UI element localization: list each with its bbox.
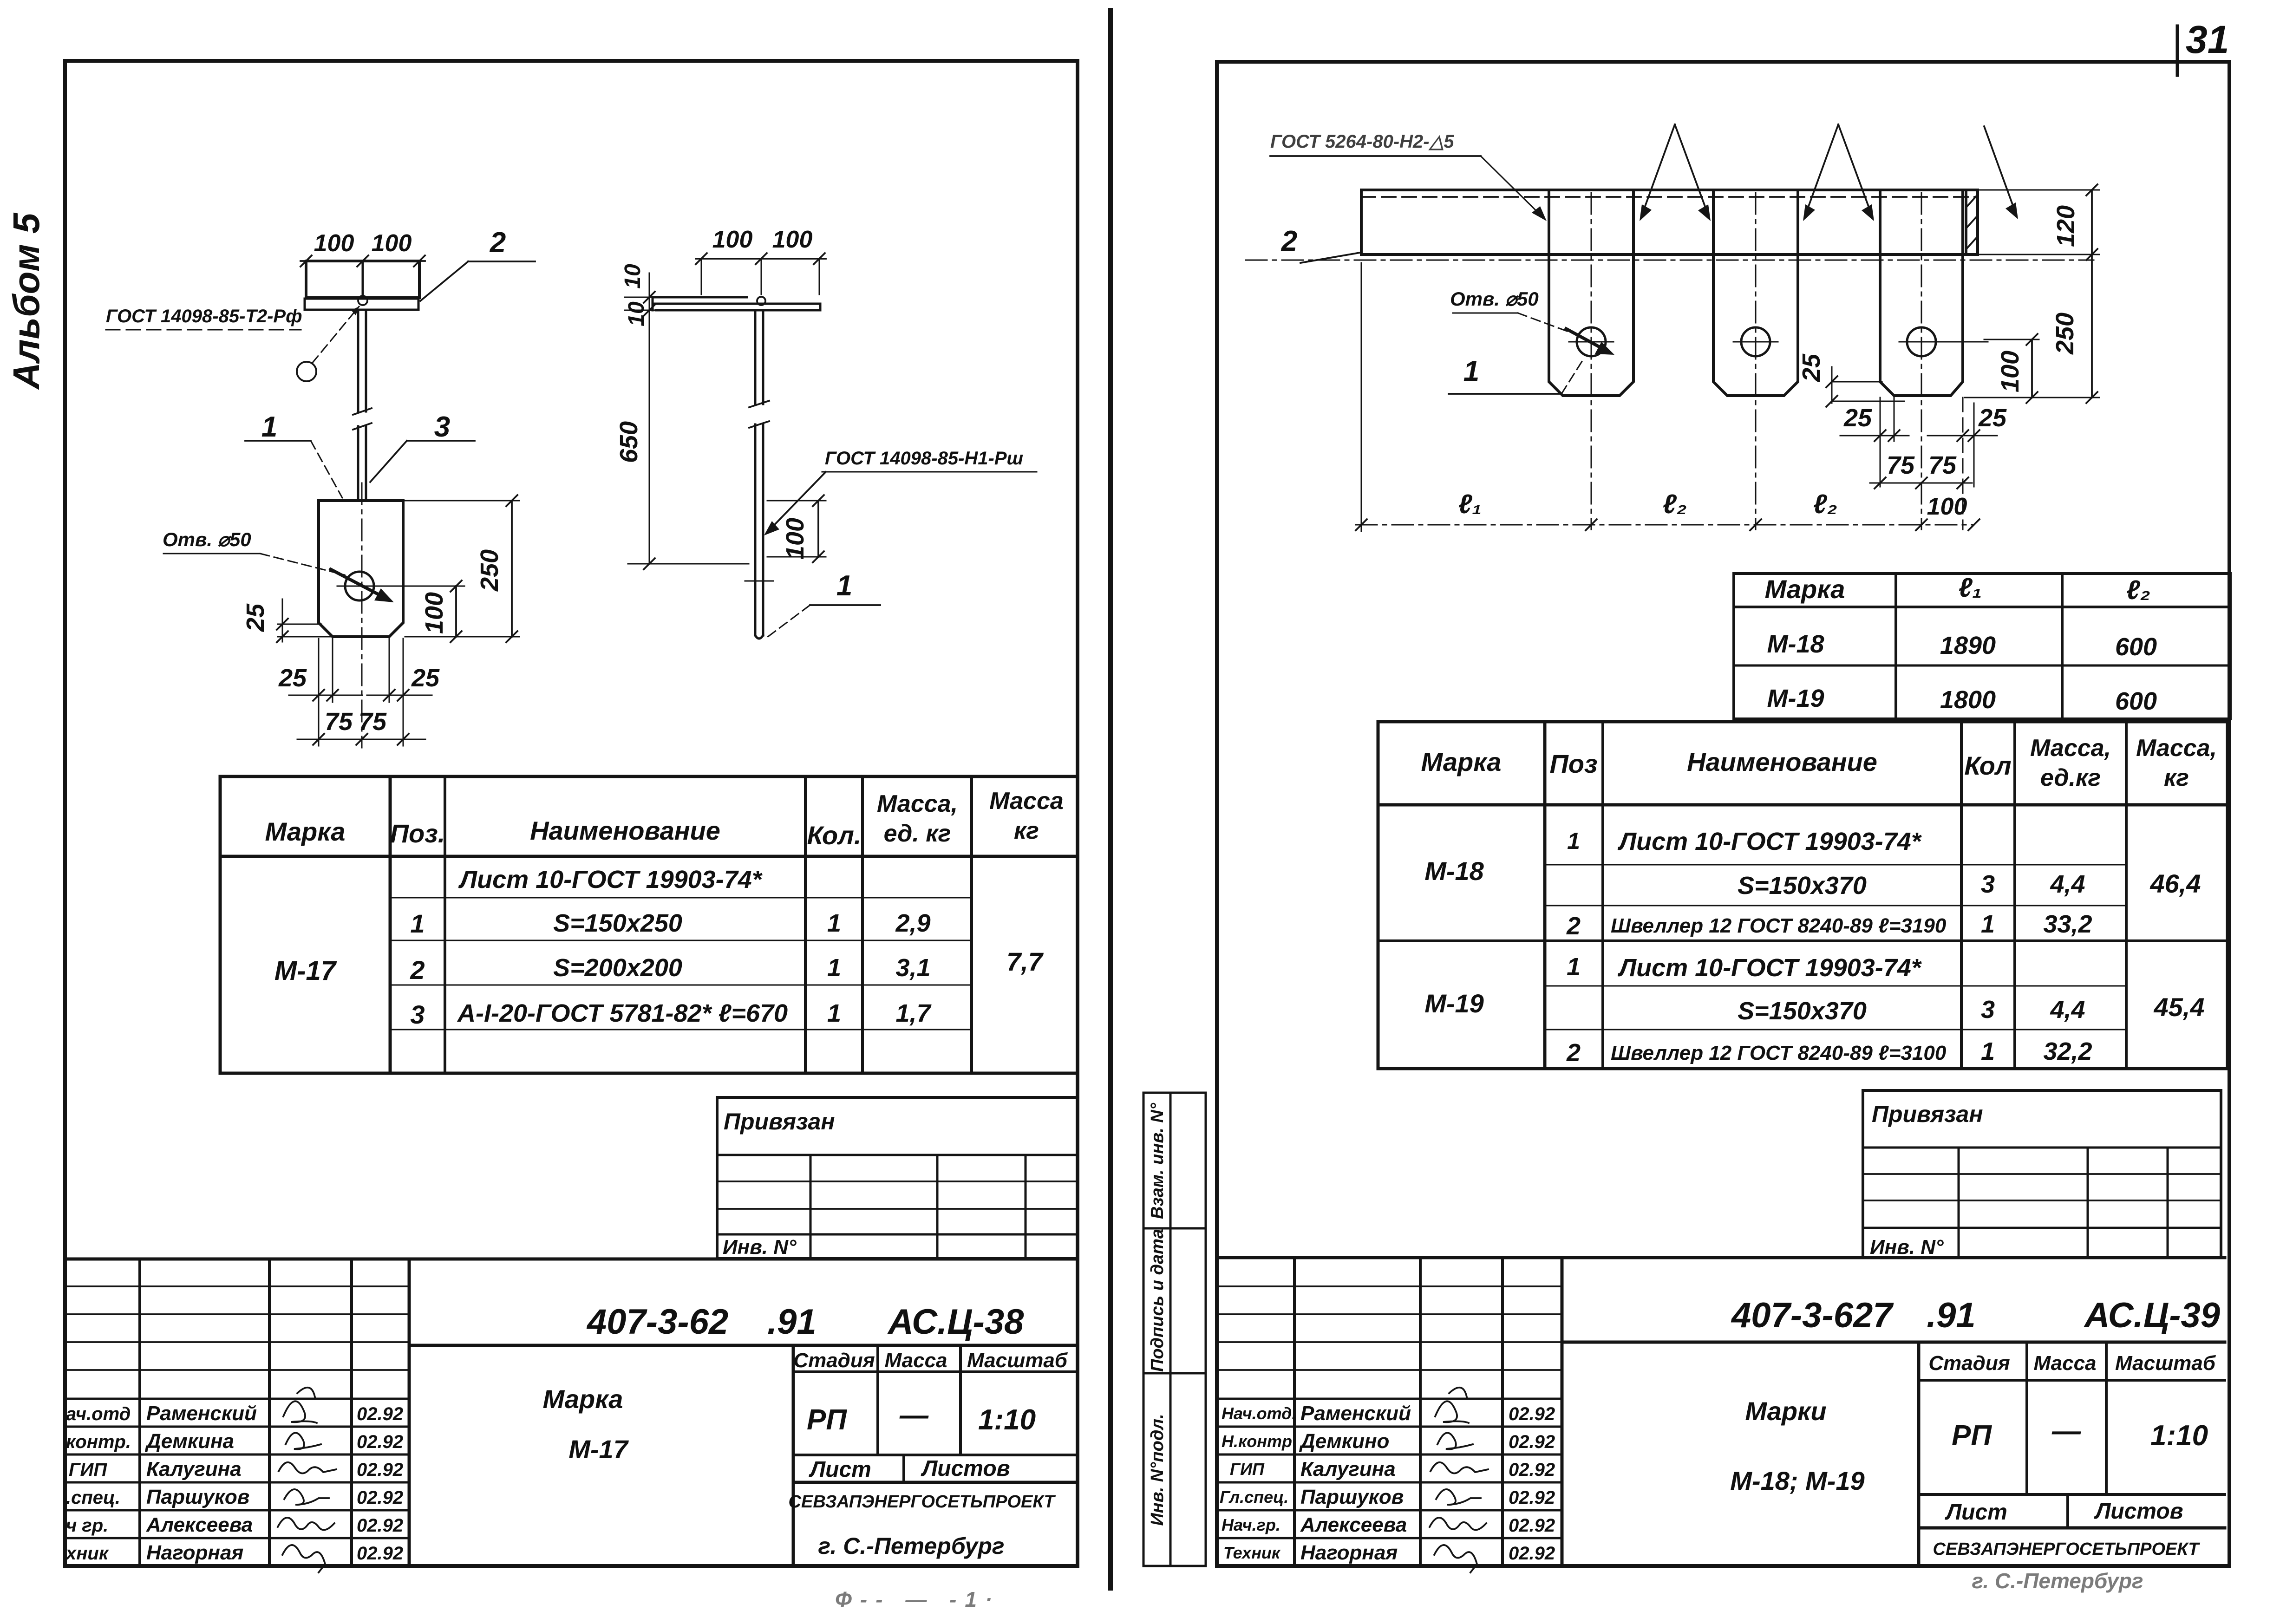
svg-text:3: 3 xyxy=(1981,870,1995,898)
dimension 100 (hole to tab bottom) xyxy=(1984,339,2039,340)
svg-text:Масса,: Масса, xyxy=(2136,735,2217,762)
svg-text:Масса,: Масса, xyxy=(877,790,958,817)
svg-text:100: 100 xyxy=(420,592,448,634)
svg-text:4,4: 4,4 xyxy=(2050,996,2085,1024)
svg-text:М-17: М-17 xyxy=(568,1435,629,1464)
svg-text:Масштаб: Масштаб xyxy=(2115,1352,2216,1375)
svg-text:ГИП: ГИП xyxy=(69,1460,107,1480)
tab 3 with hole xyxy=(1880,191,1963,396)
svg-text:РП: РП xyxy=(1952,1420,1992,1452)
rod (pos.3) upper part, front view xyxy=(357,310,359,411)
svg-text:хник: хник xyxy=(65,1543,109,1564)
svg-text:75: 75 xyxy=(1887,451,1915,479)
Стадия Масса Масштаб header xyxy=(793,1370,1078,1373)
svg-text:100: 100 xyxy=(1927,493,1967,520)
svg-text:100: 100 xyxy=(772,226,813,253)
right sheet frame xyxy=(1217,62,2229,1566)
svg-text:Н.контр: Н.контр xyxy=(1222,1432,1292,1451)
svg-text:.91: .91 xyxy=(767,1302,817,1342)
dimension 25 25 (chamfer widths) xyxy=(289,695,362,696)
svg-text:S=200x200: S=200x200 xyxy=(553,954,682,982)
weld V arrows between tabs xyxy=(1641,124,1675,216)
svg-text:1: 1 xyxy=(836,570,852,602)
svg-text:100: 100 xyxy=(372,230,412,257)
left sheet frame xyxy=(65,61,1078,1566)
svg-text:Демкина: Демкина xyxy=(144,1430,234,1453)
svg-text:75: 75 xyxy=(325,708,353,736)
svg-text:М-18: М-18 xyxy=(1424,856,1484,886)
dimension 100 (hole to bottom) xyxy=(376,586,463,587)
Стадия Масса Масштаб header xyxy=(1919,1379,2225,1382)
svg-text:7,7: 7,7 xyxy=(1006,947,1044,976)
main title block frame xyxy=(408,1259,411,1566)
change-log / signature columns xyxy=(138,1259,141,1566)
svg-text:Паршуков: Паршуков xyxy=(146,1486,249,1508)
svg-text:ℓ₁: ℓ₁ xyxy=(1959,573,1982,603)
weld flag symbol xyxy=(297,362,316,381)
svg-text:1:10: 1:10 xyxy=(2150,1420,2208,1452)
svg-text:—: — xyxy=(2051,1415,2081,1447)
svg-text:02.92: 02.92 xyxy=(357,1487,403,1508)
svg-text:75: 75 xyxy=(1928,451,1957,479)
svg-text:1: 1 xyxy=(827,954,841,982)
svg-text:Взам. инв. N°: Взам. инв. N° xyxy=(1148,1102,1167,1219)
svg-text:М-18; М-19: М-18; М-19 xyxy=(1730,1466,1864,1495)
svg-text:Масштаб: Масштаб xyxy=(967,1349,1068,1372)
svg-text:Поз: Поз xyxy=(1549,749,1597,778)
svg-text:Нач.гр.: Нач.гр. xyxy=(1222,1515,1280,1534)
svg-text:3: 3 xyxy=(410,1000,425,1029)
upper thin plate, edge view xyxy=(653,296,747,299)
svg-text:Алексеева: Алексеева xyxy=(1300,1513,1407,1536)
svg-text:S=150x370: S=150x370 xyxy=(1738,997,1867,1025)
svg-text:Лист 10-ГОСТ 19903-74*: Лист 10-ГОСТ 19903-74* xyxy=(1617,828,1922,855)
svg-text:Привязан: Привязан xyxy=(724,1109,835,1135)
svg-text:Масса: Масса xyxy=(989,788,1064,815)
svg-text:Поз.: Поз. xyxy=(390,819,445,848)
long dash-dot axis line xyxy=(1246,260,2094,261)
svg-text:А-I-20-ГОСТ 5781-82* ℓ=670: А-I-20-ГОСТ 5781-82* ℓ=670 xyxy=(457,999,788,1027)
svg-text:02.92: 02.92 xyxy=(357,1404,403,1424)
channel (Швеллер 12), pos.2: top edge xyxy=(1361,189,1978,191)
svg-text:3: 3 xyxy=(434,411,450,443)
svg-text:Листов: Листов xyxy=(2094,1499,2183,1524)
svg-text:Кол: Кол xyxy=(1964,751,2011,780)
handwritten signatures xyxy=(283,1388,317,1423)
svg-text:Лист: Лист xyxy=(809,1457,871,1482)
svg-text:М-18: М-18 xyxy=(1767,630,1824,658)
svg-text:Нач.отд.: Нач.отд. xyxy=(1222,1404,1296,1423)
svg-text:Гл.спец.: Гл.спец. xyxy=(1220,1487,1288,1507)
svg-text:1: 1 xyxy=(1567,953,1581,981)
svg-text:ГОСТ 5264-80-Н2-△5: ГОСТ 5264-80-Н2-△5 xyxy=(1270,131,1454,152)
svg-text:Инв. N°подл.: Инв. N°подл. xyxy=(1148,1414,1167,1526)
svg-text:М-19: М-19 xyxy=(1767,685,1824,712)
svg-text:650: 650 xyxy=(615,421,643,463)
svg-text:.91: .91 xyxy=(1927,1296,1976,1335)
svg-text:02.92: 02.92 xyxy=(357,1460,403,1480)
Лист / Листов row xyxy=(793,1454,1078,1456)
svg-text:02.92: 02.92 xyxy=(357,1515,403,1536)
svg-text:31: 31 xyxy=(2186,18,2229,61)
svg-text:Масса: Масса xyxy=(884,1349,947,1372)
svg-text:1:10: 1:10 xyxy=(978,1404,1036,1436)
svg-text:ГОСТ 14098-85-Н1-Рш: ГОСТ 14098-85-Н1-Рш xyxy=(825,448,1023,469)
svg-text:Альбом 5: Альбом 5 xyxy=(6,212,47,390)
rod end circle at flange centre xyxy=(358,296,367,305)
svg-text:Нагорная: Нагорная xyxy=(1300,1541,1398,1564)
svg-text:Швеллер 12 ГОСТ 8240-89 ℓ=310: Швеллер 12 ГОСТ 8240-89 ℓ=3100 xyxy=(1611,1042,1947,1064)
hidden flange line (dashed) xyxy=(1361,196,1978,198)
rod lower segment xyxy=(754,424,757,635)
svg-text:25: 25 xyxy=(1843,404,1872,432)
svg-text:Отв. ⌀50: Отв. ⌀50 xyxy=(1450,288,1539,310)
svg-text:Демкино: Демкино xyxy=(1299,1430,1389,1453)
svg-text:Наименование: Наименование xyxy=(1687,747,1877,776)
document number row: 407-3-627 .91 АС.Ц-39 xyxy=(1562,1341,2225,1344)
thin row lines xyxy=(1545,864,2126,866)
dimension 120 (channel height) xyxy=(1979,189,2099,191)
svg-text:25: 25 xyxy=(242,603,269,632)
svg-text:Марка: Марка xyxy=(265,817,346,846)
extension lines below tab 3 xyxy=(1880,398,1881,487)
svg-text:Инв. N°: Инв. N° xyxy=(1870,1236,1944,1259)
svg-text:600: 600 xyxy=(2115,687,2157,715)
svg-text:25: 25 xyxy=(1797,353,1825,382)
svg-text:1: 1 xyxy=(1463,355,1479,387)
rod break marks xyxy=(353,408,372,415)
svg-text:100: 100 xyxy=(781,518,809,560)
svg-text:ед. кг: ед. кг xyxy=(884,820,951,847)
svg-text:Масса,: Масса, xyxy=(2030,735,2111,762)
svg-text:СЕВЗАПЭНЕРГОСЕТЬПРОЕКТ: СЕВЗАПЭНЕРГОСЕТЬПРОЕКТ xyxy=(1933,1539,2201,1559)
svg-text:75: 75 xyxy=(359,708,387,736)
svg-text:Лист 10-ГОСТ 19903-74*: Лист 10-ГОСТ 19903-74* xyxy=(458,866,763,894)
svg-text:Алексеева: Алексеева xyxy=(146,1513,253,1536)
svg-text:100: 100 xyxy=(712,226,753,253)
tab 1 (Лист 150x370) with hole xyxy=(1549,191,1633,396)
alignment tick across rod xyxy=(745,580,773,582)
dimension 650 xyxy=(649,325,650,564)
svg-text:1: 1 xyxy=(1567,828,1580,854)
svg-text:2: 2 xyxy=(410,955,425,985)
svg-text:25: 25 xyxy=(411,664,440,692)
svg-text:Лист: Лист xyxy=(1945,1500,2007,1525)
svg-text:кг: кг xyxy=(1014,817,1039,844)
channel bottom edge xyxy=(1361,253,1978,256)
svg-text:Марка: Марка xyxy=(1765,574,1845,604)
svg-text:250: 250 xyxy=(476,549,503,592)
svg-text:Раменский: Раменский xyxy=(1300,1402,1411,1425)
svg-text:Подпись и дата: Подпись и дата xyxy=(1148,1229,1167,1372)
svg-text:ач.отд: ач.отд xyxy=(66,1404,131,1424)
svg-text:ℓ₂: ℓ₂ xyxy=(2126,575,2150,605)
svg-text:1800: 1800 xyxy=(1940,686,1996,714)
overall dimension line l1 l2 l2 100 xyxy=(1361,263,1362,531)
dimension 100 on rod xyxy=(767,500,826,502)
svg-text:Техник: Техник xyxy=(1223,1543,1281,1562)
svg-text:ℓ₁: ℓ₁ xyxy=(1458,489,1482,519)
svg-text:02.92: 02.92 xyxy=(1509,1460,1555,1480)
svg-text:600: 600 xyxy=(2115,633,2157,661)
dimension 250 (tab below channel) xyxy=(2091,254,2093,398)
dimension 100 100 on top of flange xyxy=(301,260,425,262)
svg-text:Отв. ⌀50: Отв. ⌀50 xyxy=(163,528,251,550)
svg-text:25: 25 xyxy=(278,664,307,692)
svg-text:Листов: Листов xyxy=(921,1456,1010,1481)
dimension 75 75 under tab 3 xyxy=(1870,483,1972,484)
cell: Марки М-18; М-19 xyxy=(1917,1342,1921,1566)
svg-text:Раменский: Раменский xyxy=(146,1402,257,1425)
svg-text:02.92: 02.92 xyxy=(1509,1487,1555,1508)
svg-text:1: 1 xyxy=(827,999,841,1027)
svg-text:10: 10 xyxy=(621,264,645,289)
svg-text:ℓ₂: ℓ₂ xyxy=(1813,489,1837,519)
svg-text:02.92: 02.92 xyxy=(1509,1432,1555,1452)
svg-text:3: 3 xyxy=(1981,996,1995,1024)
svg-text:Нагорная: Нагорная xyxy=(146,1541,243,1564)
svg-text:S=150x250: S=150x250 xyxy=(553,909,682,937)
svg-text:Швеллер 12 ГОСТ 8240-89 ℓ=319: Швеллер 12 ГОСТ 8240-89 ℓ=3190 xyxy=(1611,914,1947,937)
svg-text:Стадия: Стадия xyxy=(1928,1352,2010,1375)
hole d50 xyxy=(345,572,374,600)
dimension 10 / 10 plate thicknesses xyxy=(649,273,650,325)
svg-text:45,4: 45,4 xyxy=(2154,992,2205,1022)
svg-text:407-3-62: 407-3-62 xyxy=(586,1302,728,1342)
svg-text:М-19: М-19 xyxy=(1424,989,1484,1018)
svg-text:02.92: 02.92 xyxy=(1509,1543,1555,1564)
handwritten signatures xyxy=(1435,1388,1469,1423)
svg-text:Паршуков: Паршуков xyxy=(1300,1486,1404,1508)
central divider line between the two scanned sheets xyxy=(1108,10,1113,1588)
svg-text:контр.: контр. xyxy=(66,1432,131,1452)
svg-text:Стадия: Стадия xyxy=(793,1349,875,1372)
lower plate 200 long, edge view xyxy=(656,303,820,305)
svg-text:100: 100 xyxy=(1996,351,2024,392)
svg-text:ч гр.: ч гр. xyxy=(66,1515,108,1536)
svg-text:2: 2 xyxy=(1566,1039,1581,1067)
svg-text:02.92: 02.92 xyxy=(1509,1404,1555,1424)
thin row lines xyxy=(390,897,972,899)
svg-text:4,4: 4,4 xyxy=(2050,870,2085,898)
svg-text:АС.Ц-38: АС.Ц-38 xyxy=(887,1302,1024,1342)
svg-text:2,9: 2,9 xyxy=(895,909,930,937)
leader with position number 2 xyxy=(420,261,468,301)
svg-text:АС.Ц-39: АС.Ц-39 xyxy=(2084,1296,2220,1335)
svg-text:РП: РП xyxy=(807,1404,847,1436)
rod pos.1 side view upper segment xyxy=(754,310,757,404)
plate 1 (150x250) with chamfered bottom corners xyxy=(319,501,403,637)
svg-text:Марка: Марка xyxy=(1421,747,1502,776)
dimension 250 (plate height) xyxy=(405,500,519,502)
svg-text:Марка: Марка xyxy=(543,1384,623,1414)
Лист / Листов row xyxy=(1919,1493,2225,1496)
svg-text:Масса: Масса xyxy=(2033,1352,2096,1375)
svg-text:1: 1 xyxy=(410,909,425,938)
svg-text:02.92: 02.92 xyxy=(1509,1515,1555,1536)
svg-text:кг: кг xyxy=(2164,764,2189,791)
svg-text:2: 2 xyxy=(1281,225,1297,257)
svg-text:1: 1 xyxy=(827,909,841,937)
plate 2 (200x200) seen on edge, front view top flange xyxy=(306,261,419,298)
svg-text:Инв. N°: Инв. N° xyxy=(723,1236,797,1259)
svg-text:1,7: 1,7 xyxy=(895,999,932,1027)
svg-text:Кол.: Кол. xyxy=(807,821,862,850)
svg-text:10: 10 xyxy=(624,301,649,326)
svg-text:2: 2 xyxy=(490,227,506,259)
svg-text:Марки: Марки xyxy=(1745,1396,1826,1426)
extension lines below plate xyxy=(318,639,320,746)
vertical centre line of plate xyxy=(361,483,363,748)
tab 2 with hole xyxy=(1713,191,1798,396)
svg-text:S=150x370: S=150x370 xyxy=(1738,872,1867,900)
svg-text:32,2: 32,2 xyxy=(2043,1037,2092,1065)
svg-text:2: 2 xyxy=(1566,912,1581,940)
svg-text:—: — xyxy=(899,1399,929,1431)
svg-text:100: 100 xyxy=(314,230,354,257)
document number row: 407-3-62 .91 АС.Ц-38 xyxy=(409,1344,1078,1347)
svg-text:3,1: 3,1 xyxy=(895,954,930,982)
svg-text:25: 25 xyxy=(1978,404,2007,432)
svg-text:46,4: 46,4 xyxy=(2150,869,2201,898)
dimension 100 100 over side view xyxy=(696,258,826,260)
svg-text:Калугина: Калугина xyxy=(1300,1458,1396,1481)
svg-text:г. С.-Петербург: г. С.-Петербург xyxy=(1972,1569,2143,1593)
svg-text:1: 1 xyxy=(1981,1037,1995,1065)
svg-text:.спец.: .спец. xyxy=(66,1487,120,1508)
channel end plate with hatching xyxy=(1965,190,1967,254)
svg-text:ℓ₂: ℓ₂ xyxy=(1663,489,1687,519)
svg-text:02.92: 02.92 xyxy=(357,1543,403,1564)
dimension 25 25 under tab 3 xyxy=(1840,435,1909,437)
page number 31 xyxy=(2176,26,2179,75)
svg-text:Лист 10-ГОСТ 19903-74*: Лист 10-ГОСТ 19903-74* xyxy=(1617,954,1922,982)
svg-text:407-3-627: 407-3-627 xyxy=(1731,1296,1894,1335)
weld dot at centre xyxy=(757,297,765,305)
svg-text:Привязан: Привязан xyxy=(1872,1101,1983,1127)
svg-text:250: 250 xyxy=(2051,313,2079,355)
svg-text:СЕВЗАПЭНЕРГОСЕТЬПРОЕКТ: СЕВЗАПЭНЕРГОСЕТЬПРОЕКТ xyxy=(789,1492,1056,1512)
dimension 25 (chamfer height, tab 3) xyxy=(1831,367,1833,403)
thin base plate under flange xyxy=(305,299,418,310)
dimension 25 (chamfer height, left) xyxy=(278,624,321,625)
svg-text:ГИП: ГИП xyxy=(1230,1460,1265,1479)
svg-text:Наименование: Наименование xyxy=(530,816,720,845)
svg-text:02.92: 02.92 xyxy=(357,1432,403,1452)
svg-text:г. С.-Петербург: г. С.-Петербург xyxy=(818,1533,1004,1559)
svg-text:33,2: 33,2 xyxy=(2043,910,2092,938)
svg-text:120: 120 xyxy=(2052,205,2080,247)
svg-text:1: 1 xyxy=(261,411,277,443)
svg-text:М-17: М-17 xyxy=(274,956,337,986)
svg-text:Калугина: Калугина xyxy=(146,1458,242,1481)
svg-text:1890: 1890 xyxy=(1940,632,1996,659)
cell: Марка М-17 xyxy=(792,1345,795,1566)
svg-text:ГОСТ 14098-85-Т2-Рф: ГОСТ 14098-85-Т2-Рф xyxy=(106,306,302,326)
dimension 75 75 (half widths) xyxy=(297,739,425,740)
svg-text:1: 1 xyxy=(1981,910,1995,938)
svg-text:ед.кг: ед.кг xyxy=(2040,764,2101,791)
svg-text:Ф-- — -1·: Ф-- — -1· xyxy=(835,1587,1000,1611)
